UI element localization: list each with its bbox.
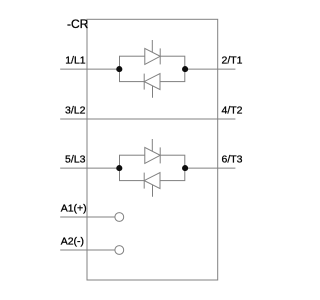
svg-text:4/T2: 4/T2 [222,104,243,116]
svg-text:A1(+): A1(+) [61,202,87,214]
svg-text:3/L2: 3/L2 [65,104,86,116]
svg-text:-CR: -CR [67,17,89,31]
svg-text:A2(-): A2(-) [61,236,84,248]
svg-text:5/L3: 5/L3 [65,153,86,165]
svg-text:1/L1: 1/L1 [65,55,86,67]
svg-text:2/T1: 2/T1 [222,55,243,67]
svg-text:6/T3: 6/T3 [222,153,243,165]
